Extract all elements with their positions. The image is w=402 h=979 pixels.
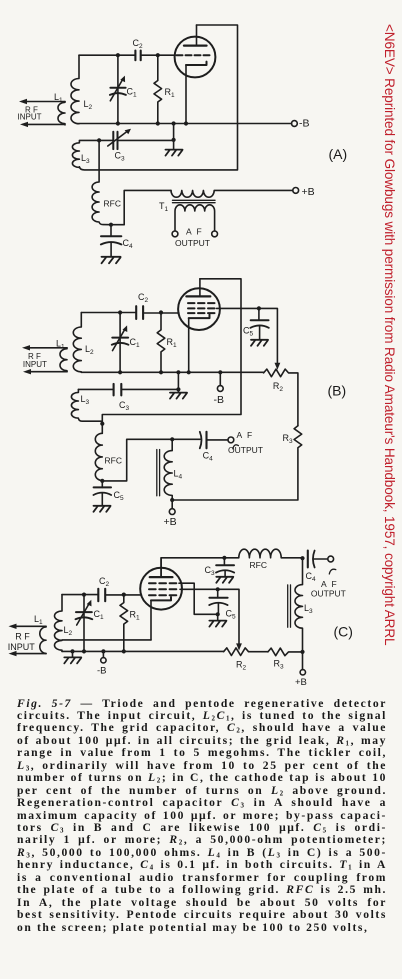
terminal AF output (C) [328, 556, 334, 562]
svg-text:(A): (A) [329, 146, 348, 162]
terminal +B (A) [293, 188, 299, 194]
wire plate loop (B) [102, 279, 241, 434]
label RFC (B) [105, 456, 122, 466]
inductor L1 (A) [58, 102, 65, 125]
junction dot RFC bottom (B) [100, 479, 104, 483]
transformer T1 core (A) [173, 200, 216, 202]
svg-text:INPUT: INPUT [18, 112, 42, 121]
terminal AF output left (A) [172, 231, 178, 237]
wire bottom rail (B) [81, 371, 263, 373]
wire grid rail top (C) [62, 594, 98, 596]
label R1 (C) [130, 610, 141, 622]
wire RFC junction to T1 line (A) [111, 190, 171, 224]
ground symbol under C5 lower (B) [94, 506, 111, 512]
capacitor C3 bypass (B) [78, 384, 178, 396]
label R1 (A) [165, 87, 176, 99]
junction dots rail (A) [97, 53, 188, 142]
wire suppressor to ground junction (C) [179, 583, 218, 614]
capacitor C1 (A) variable [110, 55, 126, 123]
ground stub below C5 (C) [217, 614, 219, 620]
wire plate loop (A) [79, 25, 237, 170]
wire bottom rail (A) [79, 123, 292, 125]
RF input top lead (C) [9, 624, 47, 629]
label A F OUTPUT (B) [228, 430, 263, 455]
wire screen to R2 wiper (C) [180, 589, 239, 646]
label C3 (A) [115, 151, 126, 163]
capacitor C5 screen bypass (B) [250, 308, 268, 339]
label R2 (C) [236, 659, 247, 671]
label C4 (A) [123, 238, 134, 250]
capacitor C1 (C) variable [76, 595, 93, 652]
svg-text:L2: L2 [64, 625, 73, 637]
svg-text:R1: R1 [167, 337, 178, 349]
ground stub (B) [177, 372, 179, 392]
label (B) [328, 383, 347, 399]
terminal AF output (B) [228, 437, 234, 443]
svg-text:L2: L2 [85, 344, 94, 356]
svg-text:R3: R3 [274, 658, 285, 670]
label RF INPUT (C) [8, 632, 36, 653]
wire cathode tap line (C) [62, 639, 151, 641]
label +B (A) [302, 186, 315, 198]
wire screen to R2 wiper (B) [217, 308, 278, 364]
label RF INPUT (B) [23, 352, 47, 369]
inductor L2 (A) [71, 55, 79, 124]
ground stub (A) [173, 124, 175, 149]
label C3 (B) [119, 400, 130, 412]
svg-text:R3: R3 [283, 433, 294, 445]
L3 core (C) [288, 585, 291, 627]
wire grid rail top (A) [79, 54, 135, 56]
capacitor C5 plate bypass (B) [93, 481, 111, 506]
junction dot L4 top (B) [170, 437, 174, 441]
resistor R1 (A) [154, 55, 162, 123]
wire RFC bottom to AF line (B) [102, 439, 200, 481]
svg-text:INPUT: INPUT [23, 360, 47, 369]
capacitor C2 (C) [98, 589, 105, 601]
svg-text:C5: C5 [114, 490, 125, 502]
capacitor C3 (A) variable regen control [99, 129, 174, 149]
label L2 (B) [85, 344, 94, 356]
svg-text:A F: A F [237, 430, 254, 440]
capacitor C1 (B) variable [112, 313, 129, 373]
capacitor C3 bypass (C) [216, 558, 234, 577]
label C5 lower (B) [114, 490, 125, 502]
label L2 (A) [84, 99, 93, 111]
svg-text:C3: C3 [205, 565, 216, 577]
terminal +B (C) [300, 652, 305, 675]
tube V2 suppressor grid (B) [188, 302, 215, 304]
tube V1 plate (A) [184, 25, 207, 46]
choke RFC (B) [95, 433, 102, 481]
tube V3 (C) pentode envelope [140, 568, 182, 610]
tube V3 cathode (C) [151, 597, 171, 640]
label RFC (A) [104, 199, 121, 209]
ground symbol under C3 (C) [216, 577, 233, 583]
svg-text:+B: +B [164, 516, 177, 528]
inductor L2 (C) [55, 595, 62, 652]
svg-text:-B: -B [214, 394, 225, 406]
svg-text:(B): (B) [328, 383, 347, 399]
svg-text:R2: R2 [273, 381, 284, 393]
inductor L1 (B) [60, 348, 67, 372]
ground symbol (A mid) [166, 150, 183, 156]
label A F OUTPUT (A) [175, 227, 210, 248]
inductor L1 (C) [40, 626, 46, 653]
resistor R1 (C) [120, 595, 128, 652]
ground symbol under C5 (C) [209, 621, 226, 627]
svg-text:RFC: RFC [250, 560, 267, 570]
wire bottom rail (C) [62, 650, 224, 652]
junction dot L4 bottom (B) [170, 498, 174, 502]
resistor R3 (C) [268, 648, 303, 656]
svg-text:C1: C1 [94, 609, 105, 621]
tube V3 suppressor grid (C) [149, 582, 177, 584]
wire grid rail top (B) [81, 312, 136, 314]
tube V2 plate (B) [186, 279, 210, 297]
label L3 (B) [81, 394, 90, 406]
tube V3 control grid (C) [149, 594, 177, 596]
wire grid line to tube (C) [105, 594, 141, 596]
svg-text:T1: T1 [159, 201, 169, 213]
svg-text:RFC: RFC [104, 199, 121, 209]
RF input top lead (B) [22, 345, 67, 350]
junction dots (C) [70, 556, 304, 654]
choke RFC (A) [92, 140, 111, 224]
terminal -B (C) [101, 651, 106, 663]
label C1 (A) [127, 87, 138, 99]
label +B (C) [295, 677, 307, 688]
svg-text:R1: R1 [130, 610, 141, 622]
transformer T1 secondary (A) [175, 205, 215, 231]
tube V3 screen grid (C) [149, 588, 177, 590]
svg-text:L4: L4 [174, 469, 183, 481]
svg-text:C2: C2 [138, 292, 149, 304]
label RF INPUT (A) [18, 106, 42, 122]
junction dot RFC bottom (A) [109, 223, 113, 227]
tube V1 (A) triode envelope [175, 37, 216, 78]
svg-text:OUTPUT: OUTPUT [175, 238, 210, 248]
inductor L3 tickler (B) [71, 389, 102, 421]
ground stub (C) [72, 651, 74, 656]
label C5 screen (B) [243, 326, 254, 338]
inductor L3 (A) tickler [72, 140, 99, 167]
svg-text:R1: R1 [165, 87, 176, 99]
svg-text:C4: C4 [306, 571, 317, 583]
svg-text:A F: A F [186, 227, 203, 237]
label RFC (C) [250, 560, 267, 570]
squiggle (B) [233, 445, 239, 449]
label R1 (B) [167, 337, 178, 349]
label T1 (A) [159, 201, 169, 213]
svg-text:-B: -B [299, 118, 310, 130]
ground symbol rail (B) [170, 393, 187, 399]
wire grid line to tube (B) [143, 312, 179, 314]
label L3 (C) [304, 603, 313, 615]
capacitor C4 coupling (B) [200, 432, 228, 449]
svg-text:+B: +B [295, 677, 307, 688]
label C1 (C) [94, 609, 105, 621]
svg-text:R F: R F [15, 632, 30, 642]
svg-text:L1: L1 [56, 339, 65, 351]
label R3 (B) [283, 433, 294, 445]
svg-text:L3: L3 [81, 394, 90, 406]
svg-text:INPUT: INPUT [8, 642, 36, 652]
svg-text:RFC: RFC [105, 456, 122, 466]
ground symbol rail (C) [64, 657, 81, 663]
label -B (C) [97, 665, 107, 676]
capacitor C2 (B) [136, 306, 143, 319]
ground symbol under C5 (B) [251, 340, 268, 346]
svg-text:R2: R2 [236, 659, 247, 671]
label L4 (B) [174, 469, 183, 481]
label -B (B) [214, 394, 225, 406]
squiggle (C) [329, 569, 336, 574]
label C2 (C) [99, 576, 110, 588]
potentiometer R2 (B) [264, 369, 298, 426]
wiper arrow (C) [236, 643, 242, 650]
tube V1 cathode (A) [186, 62, 207, 124]
RF input bottom lead (B) [23, 369, 67, 374]
RF input bottom lead (C) [9, 651, 47, 656]
svg-text:L1: L1 [34, 614, 43, 626]
tube V2 cathode (B) [189, 315, 210, 373]
svg-text:-B: -B [97, 665, 107, 676]
label C1 (B) [130, 337, 141, 349]
terminal AF output right (A) [212, 231, 218, 237]
tube V1 grid (A) [177, 54, 210, 56]
label C2 (A) [133, 38, 144, 50]
label C2 (B) [138, 292, 149, 304]
potentiometer R2 (C) [224, 648, 268, 656]
label L1 (A) [54, 92, 63, 104]
label -B (A) [299, 118, 310, 130]
tube V2 control grid (B) [188, 312, 215, 314]
svg-text:C3: C3 [115, 151, 126, 163]
junction dots (B) [100, 306, 261, 426]
RF input bottom lead [20, 122, 64, 127]
label C4 (B) [203, 451, 214, 463]
svg-text:C3: C3 [119, 400, 130, 412]
svg-text:C4: C4 [123, 238, 134, 250]
svg-text:C4: C4 [203, 451, 214, 463]
label L1 (B) [56, 339, 65, 351]
wiper arrow (B) [275, 363, 281, 370]
svg-text:C5: C5 [226, 609, 237, 621]
inductor L3 choke (C) [295, 558, 303, 652]
label (A) [329, 146, 348, 162]
label (C) [334, 624, 353, 640]
label +B (B) [164, 516, 177, 528]
L4 core (B) [157, 450, 160, 496]
svg-text:A F: A F [321, 579, 338, 589]
label L2 (C) [64, 625, 73, 637]
inductor L4 (B) [164, 439, 172, 500]
transformer T1 primary (A) [171, 190, 293, 197]
svg-text:C1: C1 [127, 87, 138, 99]
label C5 (C) [226, 609, 237, 621]
svg-text:+B: +B [302, 186, 315, 198]
label A F OUTPUT (C) [311, 579, 346, 599]
terminal -B (B) [217, 372, 223, 391]
svg-text:OUTPUT: OUTPUT [311, 588, 346, 598]
ground symbol (A bottom) [102, 257, 121, 264]
label L1 (C) [34, 614, 43, 626]
label C4 (C) [306, 571, 317, 583]
svg-text:C2: C2 [133, 38, 144, 50]
resistor R3 (B) [172, 426, 302, 500]
svg-text:OUTPUT: OUTPUT [228, 445, 263, 455]
tube V2 (B) pentode envelope [178, 288, 220, 330]
svg-text:C1: C1 [130, 337, 141, 349]
RF input top lead [19, 99, 65, 104]
label C3 (C) [205, 565, 216, 577]
label R2 (B) [273, 381, 284, 393]
svg-text:L2: L2 [84, 99, 93, 111]
wire grid line to tube (A) [141, 54, 175, 56]
capacitor C5 screen bypass (C) [209, 589, 227, 614]
svg-text:(C): (C) [334, 624, 353, 640]
label L3 (A) [81, 153, 90, 165]
inductor L2 (B) [73, 313, 81, 373]
capacitor C4 (A) [101, 225, 122, 257]
capacitor C2 (A) [135, 51, 140, 61]
label R3 (C) [274, 658, 285, 670]
tube V3 plate (C) [150, 558, 173, 577]
wire plate line (C) [161, 549, 302, 577]
tube V2 screen grid (B) [188, 307, 215, 309]
svg-text:L3: L3 [304, 603, 313, 615]
resistor R1 (B) [157, 313, 165, 373]
capacitor C4 coupling (C) [308, 551, 328, 568]
terminal +B (B) [169, 500, 175, 515]
svg-text:C2: C2 [99, 576, 110, 588]
terminal -B (A) [292, 121, 298, 127]
svg-text:L3: L3 [81, 153, 90, 165]
